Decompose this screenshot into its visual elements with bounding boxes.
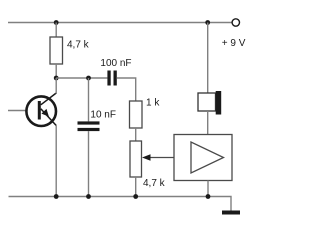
node junction top-left [54,20,59,25]
svg-text:1 k: 1 k [146,98,160,109]
wire collector to node A [55,78,57,94]
svg-text:4,7 k: 4,7 k [67,40,90,51]
wire node A to capacitor C2 [56,77,107,79]
op-amp U1 triangle [191,142,224,173]
wire top supply rail [8,22,232,24]
node junction bottom emitter [54,194,59,199]
node junction top-right [205,20,210,25]
transistor Q1 emitter arrow [41,109,49,117]
wire amplifier output to ground rail [207,181,209,197]
wire emitter to ground rail [55,126,57,197]
wire loudspeaker to amplifier U1 [207,111,209,135]
ground symbol [222,211,240,215]
wiper wire to amplifier input [149,157,174,159]
wiper arrow [142,154,151,161]
transistor Q1 circle [26,96,56,126]
svg-text:4,7 k: 4,7 k [143,178,166,189]
transistor Q1 base wire [8,110,38,112]
wire 10nF branch down [88,78,90,121]
loudspeaker LS1 box [198,93,216,111]
svg-text:10 nF: 10 nF [90,110,116,121]
node A junction [54,76,59,81]
svg-text:+ 9 V: + 9 V [222,38,246,49]
loudspeaker LS1 magnet bar [216,91,222,115]
node junction bottom potentiometer [133,194,138,199]
wire resistor to node A [55,64,57,78]
node junction bottom amplifier [206,194,211,199]
wire 10nF to ground rail [88,131,90,196]
transistor Q1 emitter line [41,109,56,126]
wire potentiometer to ground rail [135,177,137,197]
transistor Q1 collector line [41,93,57,105]
resistor 1k [130,101,143,128]
transistor Q1 base bar [38,101,41,120]
wire top rail to resistor R1 [55,23,57,38]
node junction at 10nF branch [86,76,91,81]
potentiometer 4,7k body [130,141,142,177]
capacitor 10 nF [78,121,100,131]
terminal +9V [232,19,239,26]
wire bottom ground rail [9,197,232,211]
node junction bottom 10nF [86,194,91,199]
resistor 4,7k (collector load) [50,37,63,64]
svg-text:100 nF: 100 nF [100,58,131,69]
capacitor 100 nF [107,71,116,86]
wire supply to loudspeaker [207,23,209,94]
wire 1k to potentiometer [135,128,137,141]
wire capacitor C2 to 1k resistor [117,78,136,101]
op-amp U1 box [174,135,232,181]
